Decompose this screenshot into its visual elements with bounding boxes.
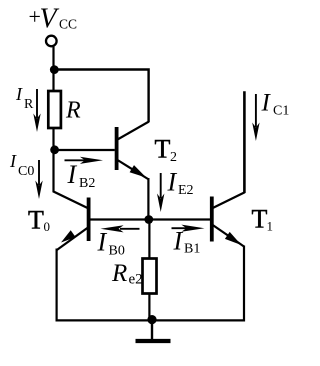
current arrow I_C1 [252,94,259,141]
svg-text:I: I [97,228,108,257]
ground [136,320,171,341]
current arrow I_E2 [157,173,164,212]
svg-text:C0: C0 [18,164,34,179]
wire base bus T0 to T1 [90,218,211,220]
svg-text:I: I [261,90,272,117]
label Re2 [111,260,143,288]
wire resistor Re2 to ground node [148,294,150,321]
wire resistor bottom through node to T0 collector lead [54,128,89,209]
svg-text:B1: B1 [184,242,200,257]
svg-text:I: I [15,84,23,104]
wire T2 emitter to center node [147,178,149,220]
svg-text:T: T [252,205,268,234]
svg-text:C1: C1 [273,104,289,119]
transistor T2 [54,122,149,180]
svg-text:B0: B0 [109,244,125,259]
label T1 [252,205,274,234]
svg-text:V: V [40,4,60,35]
wire T0 emitter down to bottom rail [55,249,57,322]
wire top junction to T2 collector lead [54,70,149,123]
current arrow I_B0 [101,225,140,232]
svg-text:1: 1 [267,219,274,234]
wire bottom rail [56,319,245,321]
svg-text:E2: E2 [178,183,194,198]
wire Vcc terminal to resistor R top [52,47,54,91]
wire T1 emitter down to bottom rail [243,246,245,322]
svg-text:I: I [9,151,17,171]
label I_B2 [67,160,96,191]
resistor Re2 [143,259,157,294]
label I_B0 [97,228,125,259]
svg-text:e2: e2 [129,272,143,288]
svg-text:R: R [65,98,81,124]
power terminal Vcc [46,36,57,47]
svg-text:T: T [155,135,171,164]
label I_R [15,84,34,112]
node ground junction [147,315,156,324]
current arrow I_R [33,89,40,132]
transistor T0 [57,198,89,251]
svg-text:I: I [167,168,178,197]
label I_B1 [173,227,201,257]
node top junction [50,65,59,74]
node center junction [144,215,153,224]
wire center node to resistor Re2 [148,220,150,259]
label T2 [155,135,178,166]
transistor T1 [212,192,245,246]
svg-text:R: R [111,260,127,287]
svg-text:I: I [67,160,78,189]
svg-text:T: T [28,206,44,235]
current arrow I_B1 [172,225,205,232]
svg-text:I: I [173,227,184,256]
label T0 [28,206,50,235]
svg-text:CC: CC [59,17,77,32]
node base of T2 junction [50,145,59,154]
current arrow I_C0 [35,160,42,199]
svg-text:B2: B2 [79,176,95,191]
svg-text:2: 2 [170,150,177,165]
svg-text:0: 0 [44,219,51,234]
label I_C0 [9,151,34,179]
label I_C1 [261,90,290,119]
label +Vcc [29,4,78,35]
current arrow I_B2 [65,157,104,164]
wire T1 collector output lead [243,91,246,193]
resistor R [48,91,61,128]
label I_E2 [167,168,194,199]
svg-text:R: R [24,97,34,112]
